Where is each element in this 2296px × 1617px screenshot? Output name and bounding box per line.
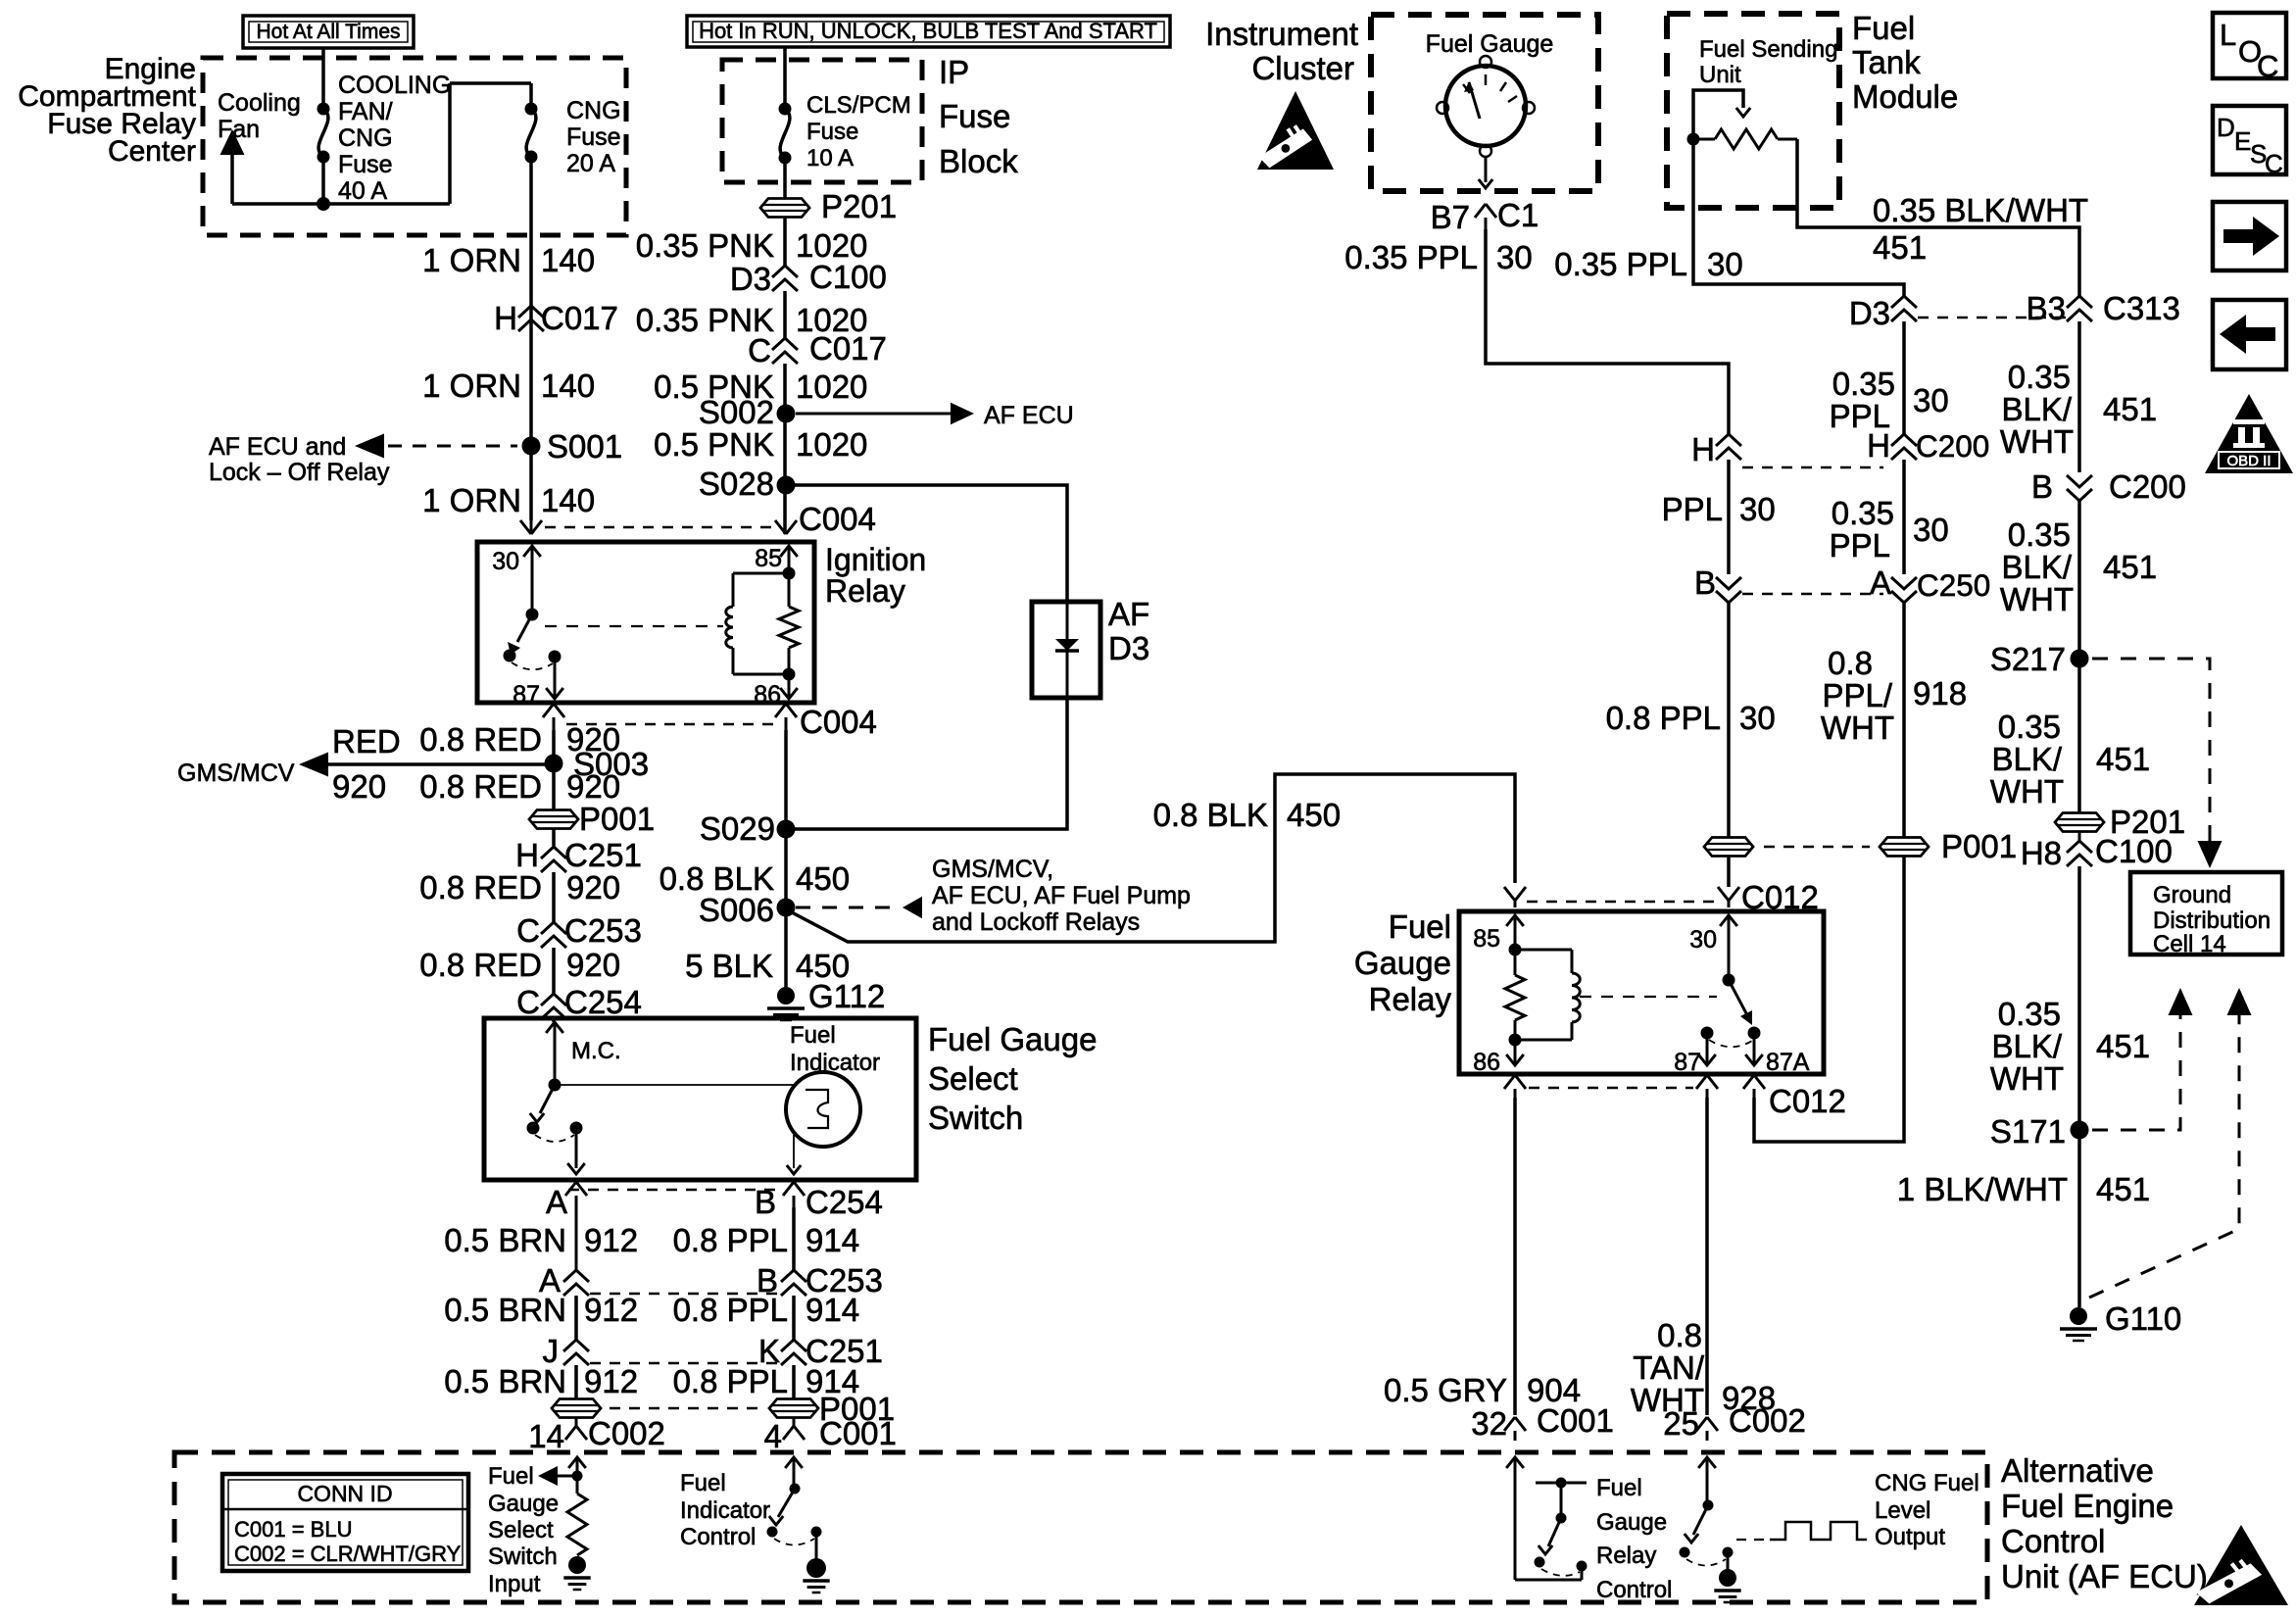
svg-text:C253: C253	[564, 912, 642, 949]
svg-text:Block: Block	[939, 143, 1018, 179]
diode symbol AF D3	[1055, 602, 1079, 698]
wire: C251 to P001 (right)	[792, 1365, 796, 1398]
connector C012 dashed tie (bottom)	[1529, 1087, 1693, 1090]
svg-text:Input: Input	[488, 1571, 541, 1597]
svg-text:BLK/: BLK/	[1991, 741, 2062, 777]
svg-text:Ground: Ground	[2153, 882, 2231, 908]
svg-text:H: H	[494, 300, 517, 336]
svg-text:TAN/: TAN/	[1633, 1349, 1705, 1386]
svg-text:C254: C254	[806, 1184, 883, 1220]
ECU pin 14 input arrow	[568, 1457, 586, 1482]
component label: Engine Compartment Fuse Relay Center	[18, 53, 196, 168]
svg-text:920: 920	[566, 869, 620, 906]
wire: bus riser to CNG fuse	[450, 83, 531, 204]
svg-text:914: 914	[806, 1222, 859, 1258]
connector C004 dashed tie (bottom)	[566, 723, 774, 726]
svg-text:CNG Fuel: CNG Fuel	[1875, 1470, 1979, 1496]
wire: feed into CLS/PCM fuse	[783, 47, 787, 109]
wire: S003 to P001	[552, 763, 556, 810]
svg-text:85: 85	[755, 545, 782, 572]
diode AF D3 box	[1032, 602, 1100, 698]
connector C250 dashed tie	[1742, 593, 1883, 596]
connector P001 dashed tie (bottom)	[610, 1407, 759, 1410]
svg-text:Hot At All Times: Hot At All Times	[256, 21, 400, 43]
svg-text:IP: IP	[939, 54, 969, 90]
svg-text:30: 30	[492, 548, 519, 575]
svg-text:BLK/: BLK/	[2001, 549, 2072, 585]
wire label: 0.5 GRY 904	[1384, 1372, 1581, 1408]
wire: B C250 down to P001	[1727, 603, 1731, 837]
relay pin 87A (Fuel Gauge Relay)	[1745, 1033, 1810, 1076]
svg-text:C250: C250	[1917, 567, 1990, 603]
svg-text:4: 4	[764, 1418, 782, 1454]
ECU pulldown resistor (switch input)	[563, 1476, 590, 1590]
svg-text:Ignition: Ignition	[825, 542, 926, 577]
svg-text:Select: Select	[928, 1060, 1018, 1097]
svg-text:0.5 PNK: 0.5 PNK	[654, 426, 774, 463]
relay control dashed link (Fuel Gauge Relay)	[1580, 996, 1717, 998]
label: Fuel Gauge Select Switch	[928, 1021, 1097, 1136]
relay box: Fuel Gauge Relay	[1459, 911, 1824, 1074]
svg-text:C254: C254	[564, 984, 642, 1020]
connector C002 pin 25	[1663, 1402, 1806, 1442]
svg-text:PPL: PPL	[1830, 527, 1890, 563]
svg-text:CONN ID: CONN ID	[297, 1481, 392, 1506]
svg-text:0.35: 0.35	[2008, 516, 2071, 553]
wire label: 0.8 RED 920 (c)	[419, 869, 620, 906]
dashed link: S171 to Ground Distribution	[2092, 988, 2193, 1130]
connector C313 dashed tie	[1918, 317, 2066, 319]
wire label: 0.35 BLK/WHT 451 (d)	[1990, 996, 2150, 1097]
connector C313 pin D3	[1849, 295, 1917, 331]
wire label: PPL 30	[1662, 491, 1776, 527]
label: Fuel Gauge Select Switch Input	[488, 1463, 559, 1597]
svg-text:D: D	[2217, 113, 2235, 142]
svg-text:912: 912	[584, 1292, 638, 1328]
wire: A C250 down to P001	[1902, 603, 1906, 837]
connector C254 (bottom of switch) pin A	[546, 1182, 587, 1220]
svg-text:FAN/: FAN/	[338, 98, 393, 125]
svg-text:GMS/MCV: GMS/MCV	[177, 759, 295, 787]
svg-text:G110: G110	[2105, 1300, 2181, 1337]
svg-text:AF ECU, AF Fuel Pump: AF ECU, AF Fuel Pump	[932, 882, 1191, 909]
off-page arrow: AF ECU and Lock-Off Relay	[209, 433, 517, 486]
svg-text:CLS/PCM: CLS/PCM	[806, 92, 911, 119]
svg-text:0.8 PPL: 0.8 PPL	[673, 1363, 788, 1399]
wire label: 1 ORN 140 (a)	[422, 242, 595, 278]
connector P001 (BRN wire)	[552, 1399, 601, 1418]
switch output to pin A	[567, 1128, 585, 1174]
wire label: 0.8 PPL/WHT 918	[1821, 645, 1967, 746]
connector C253 dashed tie (lower)	[590, 1293, 778, 1296]
svg-text:20 A: 20 A	[566, 150, 615, 177]
svg-text:B: B	[755, 1184, 776, 1220]
wire: C100 to C017	[783, 291, 787, 338]
svg-text:C: C	[2257, 49, 2278, 83]
svg-text:B7: B7	[1431, 199, 1470, 235]
off-page dashed arrow: GMS/MCV, AF ECU, AF Fuel Pump and Lockoff Relays	[796, 856, 1191, 936]
svg-text:85: 85	[1473, 925, 1500, 953]
svg-text:B3: B3	[2027, 290, 2066, 326]
wire: A to C253	[575, 1207, 578, 1270]
svg-text:Gauge: Gauge	[1354, 945, 1451, 981]
svg-text:920: 920	[332, 768, 386, 805]
wire: pin 86 down to AF ECU pin 32	[1513, 1098, 1517, 1415]
wire label: 0.8 PPL 914 (c)	[673, 1363, 859, 1399]
svg-text:30: 30	[1496, 239, 1533, 275]
wire: S217 to P201	[2077, 659, 2081, 812]
svg-text:25: 25	[1663, 1405, 1699, 1442]
svg-text:86: 86	[754, 681, 781, 709]
splice S006	[699, 892, 796, 928]
svg-text:1 ORN: 1 ORN	[422, 242, 521, 278]
wire: S003 to GMS/MCV arrow	[323, 762, 554, 766]
dashed link: G110 area to Ground Distribution	[2089, 988, 2252, 1298]
svg-text:S028: S028	[699, 465, 774, 502]
svg-text:Output: Output	[1875, 1524, 1945, 1550]
connector P001 (left column)	[529, 801, 655, 837]
svg-text:451: 451	[2096, 741, 2150, 777]
ground distribution box	[2130, 872, 2282, 957]
svg-text:C012: C012	[1769, 1083, 1846, 1119]
wire: B3 C313 to B C200	[2077, 321, 2081, 472]
svg-text:WHT: WHT	[2000, 581, 2074, 617]
svg-text:451: 451	[2103, 391, 2157, 427]
label: AF D3	[1108, 596, 1149, 666]
svg-text:0.5 BRN: 0.5 BRN	[444, 1363, 566, 1399]
wire: S028 to C004 stub	[783, 520, 787, 534]
component box (dashed): Alternative Fuel Engine Control Unit	[174, 1452, 1987, 1602]
svg-text:450: 450	[1287, 797, 1341, 833]
svg-text:WHT: WHT	[1990, 1060, 2064, 1097]
svg-text:Distribution: Distribution	[2153, 907, 2271, 934]
svg-text:COOLING: COOLING	[338, 72, 451, 99]
wire: S028 to C004	[783, 485, 787, 520]
svg-text:Fuel Engine: Fuel Engine	[2001, 1488, 2174, 1524]
svg-text:30: 30	[1913, 382, 1949, 418]
svg-text:0.35: 0.35	[1998, 996, 2061, 1032]
ground G112	[767, 978, 885, 1020]
power feed label box: Hot In RUN, UNLOCK, BULB TEST And START	[687, 16, 1170, 47]
svg-text:Fuse: Fuse	[566, 123, 621, 151]
svg-text:C: C	[748, 332, 771, 368]
svg-text:D3: D3	[730, 261, 771, 297]
component box (dashed): Engine Compartment Fuse Relay Center	[203, 58, 626, 235]
wire label: 5 BLK 450	[685, 948, 850, 984]
wire label: 0.35 PPL 30 (c)	[1830, 495, 1949, 563]
wire: C1 down and across to H C200	[1486, 229, 1729, 434]
svg-text:Indicator: Indicator	[790, 1050, 880, 1076]
variable resistor: Fuel Sending Unit	[1687, 129, 1798, 149]
svg-text:C251: C251	[564, 837, 642, 873]
wire label: 0.8 RED 920 (a)	[419, 721, 620, 758]
connector C253 pin A (lower)	[539, 1262, 589, 1298]
wire label: 0.8 PPL 30	[1606, 700, 1776, 736]
connector C253 pin B (lower)	[757, 1262, 883, 1298]
connector C254 pin C	[516, 984, 642, 1020]
label: Fuel Sending Unit	[1699, 36, 1837, 88]
svg-text:30: 30	[1739, 491, 1776, 527]
connector C017 pin H	[494, 300, 618, 336]
connector C004 (top, left half)	[520, 520, 542, 534]
svg-text:C002 = CLR/WHT/GRY: C002 = CLR/WHT/GRY	[234, 1542, 462, 1566]
label: Fuel Gauge (cluster)	[1426, 30, 1554, 58]
svg-text:87A: 87A	[1766, 1049, 1810, 1076]
ECU switch: CNG Fuel Level Output	[1680, 1505, 1741, 1602]
svg-text:0.35: 0.35	[1832, 366, 1895, 402]
svg-text:A: A	[1870, 564, 1891, 601]
svg-text:30: 30	[1913, 512, 1949, 548]
label: CNG Fuse 20 A	[566, 97, 621, 177]
svg-text:S171: S171	[1990, 1113, 2066, 1150]
splice S217	[1990, 641, 2089, 677]
svg-text:0.35 BLK/WHT: 0.35 BLK/WHT	[1873, 192, 2088, 228]
svg-text:H: H	[1691, 431, 1715, 467]
splice S171	[1990, 1113, 2089, 1150]
svg-text:Relay: Relay	[825, 573, 905, 609]
wire: C100 to S171	[2077, 866, 2081, 1130]
svg-text:1 ORN: 1 ORN	[422, 482, 521, 518]
connector C004 (top, right half)	[775, 501, 876, 537]
label: Ignition Relay	[825, 542, 926, 609]
svg-text:H8: H8	[2021, 835, 2062, 871]
ECU pin 25 arrow	[1698, 1457, 1716, 1511]
table: CONN ID	[222, 1474, 468, 1571]
label: Alternative Fuel Engine Control Unit (AF ECU)	[2001, 1452, 2208, 1594]
wire: Hot At All Times feed to fuse	[321, 48, 325, 109]
svg-text:Relay: Relay	[1369, 981, 1452, 1017]
svg-text:Tank: Tank	[1852, 44, 1921, 80]
svg-text:0.35: 0.35	[2008, 359, 2071, 395]
svg-text:920: 920	[566, 768, 620, 805]
wire: CNG fuse output down to C004	[529, 157, 533, 520]
svg-text:87: 87	[1674, 1049, 1701, 1076]
fuse: COOLING FAN/CNG Fuse 40 A	[318, 103, 330, 164]
svg-text:Fuel: Fuel	[790, 1022, 836, 1049]
connector C100 pin H8	[2021, 832, 2173, 871]
svg-text:0.8 RED: 0.8 RED	[419, 947, 542, 983]
wire label: 0.8 TAN/WHT 928	[1631, 1317, 1776, 1418]
svg-text:BLK/: BLK/	[2001, 391, 2072, 427]
svg-text:10 A: 10 A	[806, 145, 854, 171]
svg-text:0.5 BRN: 0.5 BRN	[444, 1222, 566, 1258]
svg-text:Instrument: Instrument	[1205, 16, 1358, 52]
svg-text:C1: C1	[1497, 197, 1539, 233]
wire: fuse to P201	[783, 158, 787, 198]
svg-text:Fuel: Fuel	[488, 1463, 534, 1490]
svg-text:32: 32	[1471, 1405, 1507, 1442]
svg-text:Hot In RUN, UNLOCK, BULB TEST: Hot In RUN, UNLOCK, BULB TEST And START	[699, 19, 1157, 43]
icon: OBD II triangle	[2205, 394, 2293, 473]
svg-text:C017: C017	[541, 300, 618, 336]
connector C200 pin B	[2031, 468, 2186, 505]
svg-text:Cell 14: Cell 14	[2153, 931, 2226, 957]
wire: sender to 0.35 BLK/WHT 451	[1797, 139, 2079, 296]
svg-text:451: 451	[2103, 549, 2157, 585]
svg-text:C001 = BLU: C001 = BLU	[234, 1517, 352, 1542]
svg-text:AF: AF	[1108, 596, 1149, 632]
relay pin 30 (Ignition Relay)	[492, 546, 541, 621]
svg-text:L: L	[2220, 18, 2236, 52]
wire: C017 to S002	[783, 364, 787, 414]
svg-text:S217: S217	[1990, 641, 2066, 677]
connector P001 (PPL/WHT wire)	[1880, 828, 2017, 864]
svg-text:0.35 PNK: 0.35 PNK	[636, 227, 774, 264]
ESD sensitivity icon (Instrument Cluster)	[1257, 91, 1334, 170]
connector C001 pin 4	[764, 1415, 897, 1454]
svg-text:Fuel: Fuel	[1389, 908, 1451, 945]
connector C200 pin H (left)	[1691, 431, 1741, 467]
svg-text:0.35 PPL: 0.35 PPL	[1344, 239, 1478, 275]
wire label: 0.5 PNK 1020 (b)	[654, 426, 867, 463]
svg-text:C100: C100	[2095, 833, 2173, 869]
wire label: 0.8 BLK 450 (S029)	[659, 860, 850, 897]
wire: sender wiper down (0.35 PPL 30)	[1693, 139, 1904, 296]
svg-text:1 BLK/WHT: 1 BLK/WHT	[1897, 1171, 2068, 1207]
svg-text:C: C	[516, 984, 540, 1020]
svg-text:C200: C200	[1916, 428, 1989, 464]
svg-text:C004: C004	[800, 704, 877, 740]
connector C002 pin 14	[528, 1415, 665, 1454]
wire label: 0.35 PNK 1020 (a)	[636, 227, 868, 264]
svg-text:C002: C002	[588, 1415, 665, 1451]
svg-text:14: 14	[528, 1418, 564, 1454]
svg-text:0.8 PPL: 0.8 PPL	[1606, 700, 1721, 736]
svg-text:Switch: Switch	[928, 1100, 1023, 1136]
svg-text:1 ORN: 1 ORN	[422, 367, 521, 404]
arrow: AF ECU feed	[796, 402, 1074, 429]
svg-text:0.8 RED: 0.8 RED	[419, 869, 542, 906]
wire: diode to S029	[786, 698, 1067, 829]
relay pin 87 (Fuel Gauge Relay)	[1674, 1033, 1716, 1076]
svg-text:0.8 PPL: 0.8 PPL	[673, 1222, 788, 1258]
connector C253 pin C	[516, 912, 642, 949]
svg-text:B: B	[1694, 564, 1716, 601]
connector C251 pin H	[515, 837, 642, 873]
svg-text:30: 30	[1707, 246, 1743, 282]
svg-text:and Lockoff Relays: and Lockoff Relays	[932, 908, 1140, 936]
wire label: 0.35 BLK/WHT 451 (a)	[2000, 359, 2157, 460]
label: IP Fuse Block	[939, 54, 1018, 179]
connector C251 pin J	[543, 1333, 590, 1369]
svg-text:5 BLK: 5 BLK	[685, 948, 773, 984]
svg-text:451: 451	[2096, 1171, 2150, 1207]
wire label: 0.35 BLK/WHT 451 (b)	[2000, 516, 2157, 617]
connector C250 pin B	[1694, 564, 1741, 603]
connector C200 dashed tie	[1742, 466, 1883, 469]
svg-text:S002: S002	[699, 394, 774, 430]
connector C004 (bottom, left half)	[543, 704, 564, 730]
connector C250 pin A	[1870, 564, 1990, 603]
svg-text:Gauge: Gauge	[488, 1491, 559, 1517]
svg-text:P001: P001	[579, 801, 655, 837]
svg-text:D3: D3	[1849, 295, 1890, 331]
svg-text:0.8 RED: 0.8 RED	[419, 768, 542, 805]
wire: 87A to sending unit riser	[1754, 857, 1904, 1142]
svg-text:912: 912	[584, 1222, 638, 1258]
svg-text:C100: C100	[809, 259, 887, 295]
svg-text:Control: Control	[1596, 1577, 1672, 1603]
svg-text:C002: C002	[1729, 1402, 1806, 1439]
wire label: 1 ORN 140 (b)	[422, 367, 595, 404]
svg-text:S029: S029	[700, 810, 775, 847]
svg-text:0.35 PPL: 0.35 PPL	[1554, 246, 1687, 282]
signal: CNG level square wave	[1736, 1522, 1867, 1540]
relay pin 30 (Fuel Gauge Relay)	[1689, 915, 1737, 987]
wire: D3/C313 to H/C200	[1902, 321, 1906, 434]
fuse: CNG Fuse 20 A	[525, 103, 538, 164]
wire: C251 to C253	[552, 872, 556, 922]
svg-text:Fuel Sending: Fuel Sending	[1699, 36, 1837, 63]
component box (dashed): IP Fuse Block	[722, 60, 922, 182]
label: Fuel Indicator Control	[680, 1470, 770, 1550]
pin85 chevron above relay	[1504, 883, 1526, 907]
relay pin 85 (Fuel Gauge Relay)	[1473, 915, 1524, 956]
svg-text:450: 450	[796, 860, 850, 897]
label: Fuel Gauge Relay Control	[1596, 1475, 1672, 1603]
ECU internal arrow: Fuel Gauge Select Switch Input	[538, 1466, 577, 1486]
svg-text:Alternative: Alternative	[2001, 1452, 2154, 1489]
wire: S171 to G110	[2077, 1130, 2081, 1307]
svg-text:AF ECU: AF ECU	[984, 402, 1074, 429]
svg-text:140: 140	[541, 482, 595, 518]
svg-text:Unit (AF ECU): Unit (AF ECU)	[2001, 1558, 2208, 1594]
svg-text:C004: C004	[799, 501, 876, 537]
relay coil (Ignition Relay)	[726, 573, 789, 674]
svg-text:Lock – Off Relay: Lock – Off Relay	[209, 459, 390, 486]
power feed label box: Hot At All Times	[243, 16, 414, 48]
wire: C253 to C251 (left)	[574, 1296, 578, 1340]
wire label: 0.35 PPL 30 (b)	[1830, 366, 1949, 434]
label: Cooling Fan	[218, 89, 301, 143]
svg-text:Fuel Gauge: Fuel Gauge	[928, 1021, 1097, 1057]
svg-text:0.35: 0.35	[1998, 709, 2061, 745]
svg-text:1020: 1020	[796, 426, 867, 463]
wire: S002 to S028	[783, 414, 787, 485]
connector C004 dashed tie (top)	[545, 526, 772, 529]
svg-text:Control: Control	[680, 1524, 756, 1550]
svg-text:PPL/: PPL/	[1822, 677, 1892, 713]
svg-text:920: 920	[566, 947, 620, 983]
connector C100 pin D3	[730, 259, 887, 297]
svg-text:140: 140	[541, 242, 595, 278]
splice S003	[545, 746, 650, 782]
ECU pin 4 input arrow	[785, 1457, 803, 1494]
wire label: 0.5 BRN 912 (c)	[444, 1363, 638, 1399]
connector C012 (bottom) pin 86	[1504, 1075, 1526, 1098]
wire label: 0.35 BLK/WHT 451 (c)	[1990, 709, 2150, 809]
svg-text:CNG: CNG	[338, 124, 393, 152]
svg-text:M.C.: M.C.	[571, 1038, 621, 1064]
relay pin 87 (Ignition Relay)	[513, 657, 563, 709]
svg-text:451: 451	[2096, 1028, 2150, 1064]
svg-text:Fuse: Fuse	[939, 98, 1010, 134]
svg-text:C017: C017	[809, 330, 887, 367]
wire: P201 to C100	[783, 218, 787, 266]
svg-text:Cluster: Cluster	[1251, 50, 1354, 86]
svg-text:Relay: Relay	[1596, 1543, 1656, 1569]
svg-text:PPL: PPL	[1662, 491, 1723, 527]
svg-text:912: 912	[584, 1363, 638, 1399]
svg-text:S001: S001	[547, 428, 622, 465]
svg-text:Indicator: Indicator	[680, 1497, 770, 1524]
wire label: 0.5 PNK 1020 (a)	[654, 368, 867, 405]
svg-text:86: 86	[1473, 1049, 1500, 1076]
svg-text:30: 30	[1739, 700, 1776, 736]
label: CLS/PCM Fuse 10 A	[806, 92, 911, 171]
connector P201 (right column)	[2055, 804, 2185, 840]
ESD sensitivity icon (AF ECU)	[2194, 1525, 2288, 1605]
